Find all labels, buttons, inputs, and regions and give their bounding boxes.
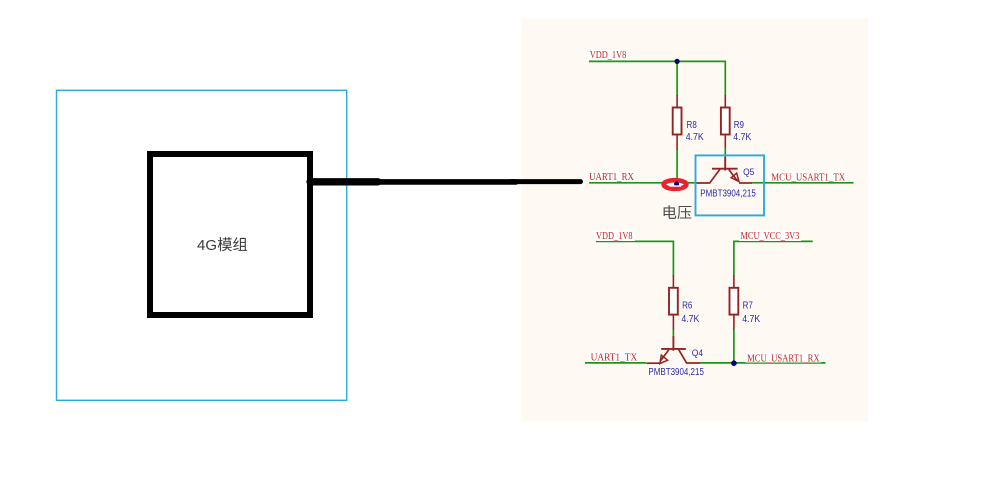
net UART1_TX xyxy=(589,351,639,363)
resistor R7 xyxy=(730,275,761,330)
svg-text:PMBT3904,215: PMBT3904,215 xyxy=(700,189,756,200)
svg-text:4G: 4G xyxy=(197,237,217,254)
4G module block U? xyxy=(150,154,310,315)
resistor R6 xyxy=(669,275,700,330)
annotation text 电压 xyxy=(664,205,692,219)
svg-text:4.7K: 4.7K xyxy=(686,132,704,143)
svg-text:MCU_USART1_RX: MCU_USART1_RX xyxy=(747,352,820,364)
wire UART1_RX horizontal xyxy=(589,182,663,184)
net VDD_1V8 (bottom) xyxy=(594,230,635,242)
svg-text:R8: R8 xyxy=(687,120,698,131)
svg-text:UART1_RX: UART1_RX xyxy=(589,171,634,183)
node UART1_RX junction xyxy=(674,182,679,187)
net MCU_VCC_3V3 xyxy=(739,230,801,242)
svg-text:PMBT3904,215: PMBT3904,215 xyxy=(648,367,704,378)
svg-text:4.7K: 4.7K xyxy=(681,314,699,325)
svg-text:Q5: Q5 xyxy=(743,167,754,178)
node MCU_USART1_RX junction xyxy=(731,360,737,366)
net UART1_RX xyxy=(588,171,637,183)
annotation red ellipse on UART1_RX xyxy=(664,180,687,189)
transistor Q5 xyxy=(696,157,753,183)
wire: thick annotation line from 4G module to UART1_RX xyxy=(310,178,581,186)
resistor R9 xyxy=(721,95,752,149)
schematic background xyxy=(522,19,869,422)
annotation box (cyan) around Q5 xyxy=(696,155,765,215)
svg-text:Q4: Q4 xyxy=(692,348,703,359)
resistor R8 xyxy=(673,95,704,150)
svg-text:4.7K: 4.7K xyxy=(733,132,751,143)
net VDD_1V8 (top) xyxy=(588,49,629,61)
net MCU_USART1_TX xyxy=(770,171,847,184)
svg-text:MCU_VCC_3V3: MCU_VCC_3V3 xyxy=(741,230,800,242)
wire R8 vertical (green parts) xyxy=(676,61,678,95)
wire UART1_TX / MCU_USART1_RX horizontal xyxy=(585,362,646,364)
svg-text:4.7K: 4.7K xyxy=(742,314,760,325)
annotation box (cyan) around 4G module xyxy=(57,90,347,400)
node VDD_1V8 junction xyxy=(675,59,680,64)
svg-text:R6: R6 xyxy=(682,301,693,312)
svg-text:VDD_1V8: VDD_1V8 xyxy=(590,49,627,61)
wire VDD_1V8 bottom L-shape xyxy=(596,241,673,275)
wire MCU_VCC_3V3 L-shape xyxy=(734,241,813,275)
wire VDD_1V8 top horizontal xyxy=(589,60,726,62)
transistor Q4 xyxy=(646,336,700,364)
svg-text:MCU_USART1_TX: MCU_USART1_TX xyxy=(771,172,845,184)
svg-text:VDD_1V8: VDD_1V8 xyxy=(596,230,633,242)
net MCU_USART1_RX xyxy=(746,352,822,364)
svg-text:R9: R9 xyxy=(734,120,745,131)
svg-text:UART1_TX: UART1_TX xyxy=(591,351,638,363)
svg-text:R7: R7 xyxy=(743,301,754,312)
wire R9 vertical (green parts) xyxy=(724,61,726,95)
